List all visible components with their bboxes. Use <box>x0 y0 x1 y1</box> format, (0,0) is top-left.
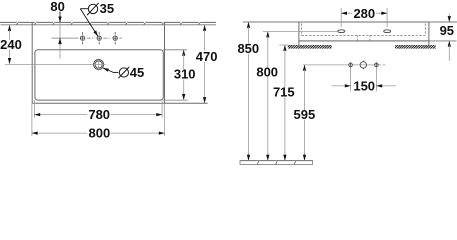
fixing hole oval right <box>384 30 391 33</box>
svg-text:280: 280 <box>353 6 375 21</box>
label Ø45 <box>118 67 129 78</box>
dim 715 <box>284 45 286 160</box>
tap hole right <box>113 32 117 44</box>
dim 240 (wall to drain) <box>9 25 11 64</box>
svg-text:240: 240 <box>0 37 22 52</box>
dim 800 (right drawing) <box>267 32 269 161</box>
leader Ø45 <box>103 68 118 73</box>
svg-text:800: 800 <box>256 65 278 80</box>
svg-text:310: 310 <box>174 67 196 82</box>
holes level extension line (800 target) <box>263 31 338 33</box>
svg-text:45: 45 <box>130 65 144 80</box>
dim 280 <box>341 8 387 27</box>
dim 310 <box>183 50 185 100</box>
mounting hole left <box>349 62 353 67</box>
drain hidden risers <box>357 36 370 41</box>
tap holes centerline <box>52 37 79 39</box>
svg-text:470: 470 <box>196 49 218 64</box>
hidden interior (dashed) <box>302 24 426 36</box>
rim level line <box>243 21 457 23</box>
basin outer rectangle <box>32 22 207 103</box>
wall bracket right (hatched) <box>395 45 436 49</box>
drain centerline vertical <box>98 58 100 71</box>
svg-text:715: 715 <box>273 85 295 100</box>
floor hatch ticks <box>257 161 295 164</box>
basin left edge <box>298 22 300 45</box>
mounting hole right <box>375 62 379 67</box>
svg-text:95: 95 <box>440 23 454 38</box>
dim 780 <box>34 100 162 118</box>
svg-text:850: 850 <box>237 41 259 56</box>
wall bracket left (hatched) <box>288 45 332 49</box>
dim 470 <box>204 25 206 103</box>
leader Ø35 <box>80 9 98 37</box>
drain target symbol <box>360 61 366 70</box>
basin right edge <box>428 22 430 45</box>
basin top edge overlay <box>299 21 429 23</box>
mounting holes row centerline (595 target) <box>303 64 381 66</box>
drain centerline horizontal (also 240 target) <box>5 64 106 66</box>
basin inner rounded rectangle <box>35 50 163 100</box>
svg-text:780: 780 <box>88 107 110 122</box>
dim 80 (wall to tap holes) <box>59 12 61 59</box>
svg-text:80: 80 <box>50 0 64 14</box>
svg-text:35: 35 <box>100 1 114 16</box>
svg-text:150: 150 <box>353 79 375 94</box>
basin bottom line <box>299 40 457 42</box>
bracket top extension (715 target) <box>279 44 288 46</box>
svg-text:595: 595 <box>294 107 316 122</box>
dim 150 <box>332 68 396 92</box>
dim 95 <box>448 14 450 62</box>
drain hole (2 concentric circles) <box>94 60 104 70</box>
svg-text:800: 800 <box>89 126 111 141</box>
dim 800 (left drawing) <box>32 103 165 136</box>
inner-rect edge extensions (310 dim targets) <box>163 49 187 51</box>
dim 595 <box>304 65 306 161</box>
fixing hole oval left <box>338 30 345 33</box>
label Ø35 <box>87 3 99 15</box>
tap hole left <box>80 32 84 44</box>
tap hole middle <box>97 32 101 44</box>
wall hatch ticks <box>17 23 200 25</box>
dim 850 <box>248 22 250 160</box>
floor band <box>240 161 313 165</box>
wall section band (top) <box>0 22 216 24</box>
